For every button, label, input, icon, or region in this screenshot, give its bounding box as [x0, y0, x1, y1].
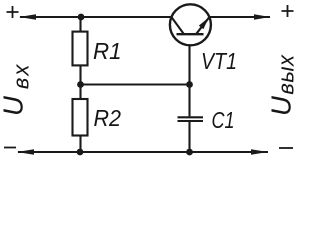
svg-text:VT1: VT1: [201, 48, 237, 74]
svg-text:C1: C1: [212, 107, 235, 133]
svg-text:R2: R2: [94, 105, 122, 131]
svg-text:R1: R1: [93, 38, 122, 64]
